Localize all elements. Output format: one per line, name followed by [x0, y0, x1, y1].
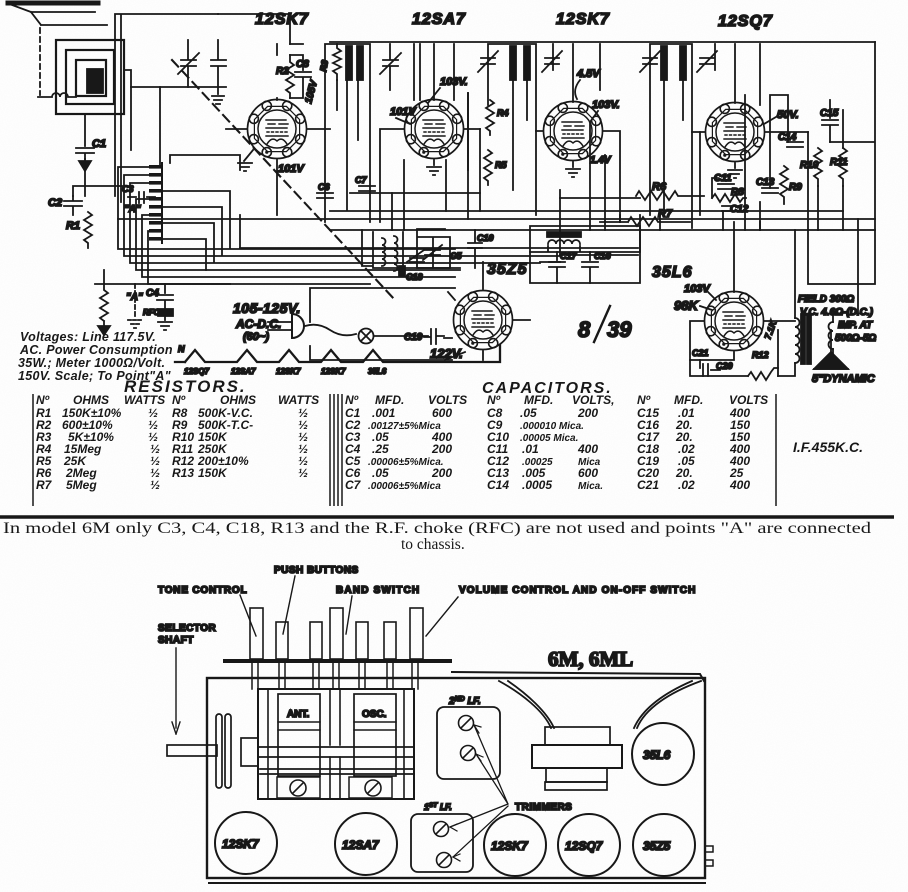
2nd IF can [437, 707, 500, 779]
svg-text:.05: .05 [520, 406, 537, 420]
wire leads antenna to bus [73, 14, 218, 202]
tube 12SA7 layout [335, 813, 397, 875]
speaker [814, 352, 848, 369]
top rail [218, 14, 875, 44]
svg-text:Nº: Nº [172, 393, 186, 407]
svg-text:.01: .01 [522, 442, 539, 456]
svg-text:35Z5: 35Z5 [487, 261, 528, 278]
svg-text:C8: C8 [296, 59, 309, 70]
tube V1 12SK7 [248, 100, 307, 159]
button 5 [356, 622, 368, 659]
svg-text:SHAFT: SHAFT [158, 635, 194, 646]
resistor R1 [84, 212, 92, 248]
ANT section [278, 694, 320, 776]
svg-text:MFD.: MFD. [375, 393, 404, 407]
right box [808, 230, 875, 284]
svg-text:C16: C16 [594, 251, 612, 261]
capacitor C8a [290, 55, 311, 98]
svg-text:.25: .25 [372, 442, 389, 456]
capacitor C4 [157, 284, 173, 308]
svg-text:105-125V.: 105-125V. [233, 300, 301, 316]
tuning gang section 1 (variable capacitor) [160, 40, 226, 165]
svg-text:400: 400 [729, 478, 750, 492]
svg-text:(60~): (60~) [243, 331, 269, 343]
svg-text:WATTS: WATTS [124, 393, 165, 407]
svg-text:N: N [178, 344, 185, 354]
loop antenna L1 [38, 40, 131, 150]
capacitor C1 [76, 148, 94, 171]
svg-text:R2: R2 [276, 66, 289, 77]
tuning gang section 2 [380, 44, 401, 90]
resistor R12 [748, 368, 778, 380]
svg-text:C1: C1 [92, 138, 106, 150]
svg-text:MFD.: MFD. [524, 393, 553, 407]
svg-text:103V: 103V [684, 283, 711, 295]
AC plug [268, 314, 356, 338]
svg-text:39: 39 [607, 317, 632, 342]
svg-text:C15: C15 [820, 108, 839, 119]
svg-text:600: 600 [432, 406, 452, 420]
svg-text:600: 600 [578, 466, 598, 480]
output transformer [778, 230, 833, 376]
svg-text:12SQ7: 12SQ7 [565, 839, 604, 853]
ground V1 [238, 150, 253, 171]
svg-text:C21: C21 [637, 478, 659, 492]
svg-text:6M, 6ML: 6M, 6ML [548, 647, 633, 671]
svg-text:150V. Scale; To Point"A": 150V. Scale; To Point"A" [18, 369, 172, 383]
band switch contact comb [149, 163, 162, 243]
svg-text:R8: R8 [731, 187, 744, 198]
trimmer 1a [434, 822, 449, 837]
trimmer osc [365, 780, 381, 796]
svg-text:VOLUME CONTROL AND ON-OFF SWIT: VOLUME CONTROL AND ON-OFF SWITCH [459, 585, 696, 596]
svg-text:35L6: 35L6 [652, 264, 692, 281]
resistor R5 [484, 150, 492, 185]
IF transformer T3 [640, 44, 717, 228]
svg-text:35W.; Meter 1000Ω/Volt.: 35W.; Meter 1000Ω/Volt. [18, 356, 165, 370]
RFC choke [158, 309, 173, 316]
svg-text:12SQ7: 12SQ7 [184, 367, 209, 376]
ground V2 [427, 160, 441, 175]
trimmer ant [290, 780, 306, 796]
switch wiring bundle [118, 155, 560, 284]
resistor table [33, 394, 334, 506]
tube V3 12SK7 [544, 102, 603, 161]
capacitor C10 [468, 230, 482, 268]
tube 35L6 layout [632, 723, 694, 785]
svg-text:.001: .001 [372, 406, 396, 420]
svg-text:R6: R6 [652, 181, 667, 193]
1st IF can [411, 814, 473, 872]
point A dashed ground [134, 284, 136, 318]
svg-text:.05: .05 [372, 466, 389, 480]
svg-text:C5: C5 [450, 251, 462, 261]
svg-text:C12: C12 [730, 204, 749, 215]
voltages note [18, 330, 173, 383]
svg-text:400: 400 [577, 442, 598, 456]
button 7 tall [410, 608, 423, 659]
tube V5 35Z5 rectifier [454, 291, 513, 350]
svg-text:½: ½ [298, 466, 308, 480]
svg-text:35Z5: 35Z5 [643, 839, 671, 853]
capacitor C7 [359, 186, 375, 191]
button 2 [276, 622, 288, 659]
svg-text:103V.: 103V. [592, 99, 620, 111]
capacitor C2 [64, 196, 82, 215]
svg-text:Mica.: Mica. [578, 481, 603, 492]
svg-text:C7: C7 [345, 478, 362, 492]
svg-text:12SA7: 12SA7 [412, 11, 466, 28]
svg-text:4.5V: 4.5V [576, 68, 601, 80]
wires output top-right [712, 42, 875, 230]
band switch dashed gang line [172, 60, 395, 300]
capacitor C16 [582, 252, 598, 283]
trimmer 2a [459, 716, 474, 731]
svg-text:TONE CONTROL: TONE CONTROL [158, 585, 247, 596]
svg-text:12SA7: 12SA7 [231, 367, 256, 376]
svg-text:R13: R13 [172, 466, 194, 480]
svg-text:12SK7: 12SK7 [556, 11, 610, 28]
svg-text:½: ½ [150, 478, 160, 492]
button stems [252, 663, 418, 689]
svg-text:VOLTS,: VOLTS, [572, 393, 614, 407]
svg-text:C6: C6 [318, 182, 330, 192]
svg-text:R3: R3 [318, 59, 330, 72]
capacitor C6 [317, 193, 333, 198]
tube V6 35L6 [705, 292, 764, 351]
capacitor C17 [549, 252, 565, 283]
svg-text:C19: C19 [404, 332, 423, 343]
padder box [417, 229, 450, 268]
speaker magnet [532, 745, 622, 768]
svg-text:101V: 101V [278, 163, 305, 175]
svg-text:C17: C17 [560, 251, 578, 261]
speaker lower rect [546, 768, 607, 782]
svg-text:RFC: RFC [143, 308, 160, 317]
resistor R7 [600, 217, 690, 226]
svg-text:101V: 101V [390, 106, 417, 118]
svg-text:R9: R9 [789, 182, 802, 193]
svg-text:C18: C18 [406, 272, 423, 282]
svg-text:.02: .02 [678, 478, 695, 492]
svg-text:12SA7: 12SA7 [342, 838, 380, 852]
separator rule [0, 515, 894, 518]
resistor R10 [814, 148, 822, 186]
svg-text:500Ω-5Ω: 500Ω-5Ω [835, 333, 876, 344]
filament string [175, 345, 500, 362]
capacitor C21 [700, 360, 720, 376]
svg-text:200: 200 [431, 466, 452, 480]
capacitor C11 [718, 184, 734, 189]
svg-text:R7: R7 [36, 478, 53, 492]
svg-text:R11: R11 [830, 157, 848, 168]
speaker cone [499, 681, 701, 728]
svg-text:12SK7: 12SK7 [222, 837, 260, 851]
pushbutton bar [225, 659, 450, 663]
trimmer box ant [277, 777, 320, 798]
capacitor C15 [822, 100, 838, 142]
tube 35Z5 layout [633, 814, 695, 876]
svg-text:FIELD 300Ω: FIELD 300Ω [798, 294, 854, 305]
wires V2 [380, 44, 480, 222]
svg-text:Voltages: Line 117.5V.: Voltages: Line 117.5V. [20, 330, 156, 344]
speaker upper rect [545, 727, 610, 745]
capacitor C14 [787, 142, 803, 147]
svg-text:Nº: Nº [345, 393, 359, 407]
svg-text:R4: R4 [497, 108, 509, 118]
chassis outline [207, 678, 705, 878]
capacitor C13 [762, 188, 778, 193]
svg-text:200: 200 [577, 406, 598, 420]
svg-text:C20: C20 [716, 361, 733, 371]
hub [241, 738, 258, 766]
svg-text:C13: C13 [756, 177, 775, 188]
shaft bars through gang [258, 747, 414, 774]
svg-text:WATTS: WATTS [278, 393, 319, 407]
selector shaft rod [167, 745, 217, 756]
svg-text:OHMS: OHMS [73, 393, 109, 407]
wires V5 [310, 262, 530, 360]
wires V1 [226, 44, 330, 215]
svg-text:ANT.: ANT. [287, 709, 309, 720]
resistor R8 [712, 194, 746, 202]
svg-text:R1: R1 [66, 220, 80, 232]
oscillator coil [362, 230, 460, 271]
svg-text:MFD.: MFD. [674, 393, 703, 407]
tube 12SQ7 layout [558, 814, 620, 876]
capacitor C3 and point A [128, 192, 155, 203]
svg-text:OHMS: OHMS [220, 393, 256, 407]
speaker bottom rect [545, 782, 607, 790]
OSC section [354, 694, 396, 776]
svg-text:C2: C2 [48, 197, 62, 209]
IF transformer T2 [478, 44, 562, 215]
svg-text:12SK7: 12SK7 [491, 839, 529, 853]
svg-text:5"DYNAMIC: 5"DYNAMIC [812, 373, 876, 385]
wires power [95, 270, 230, 284]
svg-text:8: 8 [578, 317, 591, 342]
svg-text:150K: 150K [198, 466, 228, 480]
svg-text:to chassis.: to chassis. [401, 536, 465, 553]
svg-text:C4: C4 [146, 288, 159, 299]
button 4 tall [330, 608, 343, 659]
svg-text:AC. Power Consumption: AC. Power Consumption [19, 343, 173, 357]
svg-text:2ND I.F.: 2ND I.F. [448, 696, 481, 707]
svg-text:R10: R10 [800, 160, 819, 171]
svg-text:In model 6M only C3, C4, C18,: In model 6M only C3, C4, C18, R13 and th… [3, 520, 871, 537]
svg-text:35L6: 35L6 [368, 367, 387, 376]
svg-text:VOLTS: VOLTS [729, 393, 768, 407]
wire verticals grid [392, 93, 858, 315]
trimmer 2b [461, 746, 476, 761]
ground V3 [566, 162, 580, 177]
capacitor C19 [431, 329, 444, 344]
svg-text:.0005: .0005 [522, 478, 552, 492]
tube V2 12SA7 [405, 100, 464, 159]
svg-text:35L6: 35L6 [643, 748, 671, 762]
svg-text:V.C. 4.6Ω-(D.C.): V.C. 4.6Ω-(D.C.) [800, 307, 874, 318]
power resistor and ground [100, 284, 108, 326]
wires V4 [692, 44, 808, 132]
svg-text:12SQ7: 12SQ7 [718, 13, 773, 30]
resistor R2 [286, 55, 294, 98]
resistor R9 [780, 166, 788, 204]
pulley [216, 714, 222, 788]
svg-text:TRIMMERS: TRIMMERS [515, 802, 572, 813]
svg-text:1.4V: 1.4V [590, 155, 612, 166]
svg-text:5Meg: 5Meg [66, 478, 97, 492]
svg-text:"A": "A" [126, 292, 143, 303]
svg-text:200: 200 [431, 442, 452, 456]
svg-text:PUSH BUTTONS: PUSH BUTTONS [274, 565, 359, 576]
svg-text:R12: R12 [752, 350, 769, 360]
svg-text:.000010 Mica.: .000010 Mica. [520, 421, 584, 432]
svg-text:C21: C21 [692, 348, 709, 358]
svg-text:"A": "A" [124, 204, 141, 215]
pilot lamp [359, 329, 374, 344]
tube 12SK7 layout [215, 812, 277, 874]
svg-text:C14: C14 [487, 478, 509, 492]
trimmer arrows [450, 725, 508, 857]
trimmer box osc [349, 777, 392, 798]
svg-text:BAND SWITCH: BAND SWITCH [336, 585, 420, 596]
svg-text:R5: R5 [495, 160, 507, 170]
svg-text:98K: 98K [674, 298, 699, 313]
ground V4 [728, 163, 742, 178]
tuning gang frame [258, 689, 414, 799]
svg-text:.00006±5%Mica: .00006±5%Mica [368, 481, 441, 492]
wires V3 [536, 44, 620, 222]
capacitor C12 [722, 206, 738, 211]
svg-text:I.F.455K.C.: I.F.455K.C. [793, 439, 863, 455]
svg-text:OSC.: OSC. [362, 709, 387, 720]
svg-text:IMP. AT: IMP. AT [838, 320, 873, 331]
svg-text:VOLTS: VOLTS [428, 393, 467, 407]
button 6 [384, 622, 396, 659]
svg-text:SELECTOR: SELECTOR [158, 623, 217, 634]
resistor R11 [839, 148, 847, 186]
svg-text:Nº: Nº [487, 393, 501, 407]
svg-text:C7: C7 [355, 175, 367, 185]
wires V6 [690, 222, 795, 360]
button 1 tall [250, 608, 263, 659]
bus lines mid [118, 193, 875, 230]
svg-text:12SK7: 12SK7 [276, 367, 301, 376]
filter choke [530, 226, 640, 252]
terminals right edge [705, 846, 713, 866]
trimmer C18 [399, 266, 405, 276]
tube 12SK7b layout [484, 814, 546, 876]
verticals misc [420, 44, 760, 230]
button 3 [310, 622, 322, 659]
resistor R6 [636, 191, 704, 200]
svg-text:AC-D.C.: AC-D.C. [235, 317, 281, 331]
trimmer 1b [437, 853, 452, 868]
svg-text:12SK7: 12SK7 [321, 367, 346, 376]
IF transformer T1 [325, 44, 370, 222]
svg-text:Nº: Nº [637, 393, 651, 407]
svg-text:C10: C10 [477, 233, 494, 243]
resistor R4 [486, 100, 494, 135]
antenna symbol top-left [8, 3, 107, 95]
svg-text:Nº: Nº [36, 393, 50, 407]
svg-text:1ST I.F.: 1ST I.F. [424, 802, 452, 812]
tube V4 12SQ7 [706, 103, 765, 162]
